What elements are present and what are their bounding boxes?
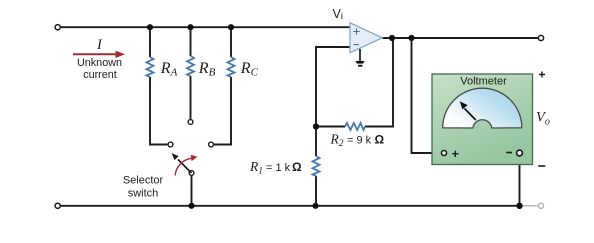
svg-text:Ω: Ω: [375, 132, 385, 146]
svg-text:RC: RC: [240, 60, 259, 79]
svg-text:R1: R1: [249, 159, 263, 177]
svg-text:current: current: [83, 69, 117, 81]
svg-text:Voltmeter: Voltmeter: [460, 76, 507, 88]
svg-text:Ω: Ω: [292, 160, 302, 174]
svg-text:= 9 k: = 9 k: [347, 134, 372, 146]
svg-text:RB: RB: [198, 60, 216, 79]
svg-text:I: I: [96, 37, 103, 53]
svg-text:= 1 k: = 1 k: [266, 162, 291, 174]
svg-text:R2: R2: [330, 131, 344, 149]
svg-text:Selector: Selector: [123, 175, 164, 187]
svg-text:Vi: Vi: [333, 7, 343, 22]
svg-text:switch: switch: [128, 188, 159, 200]
svg-text:RA: RA: [160, 60, 178, 79]
svg-text:Unknown: Unknown: [77, 57, 122, 69]
svg-text:Vo: Vo: [536, 110, 550, 128]
